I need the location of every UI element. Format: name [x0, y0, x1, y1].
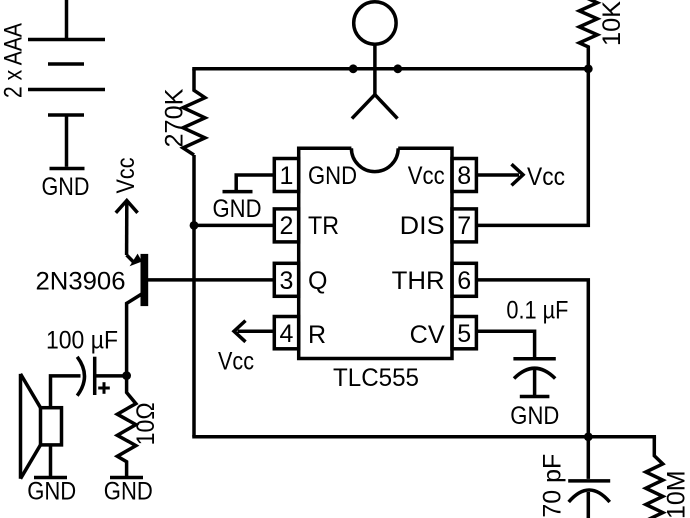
- battery B1 2xAAA: [28, 0, 105, 167]
- svg-text:5: 5: [457, 320, 471, 348]
- resistor R1 270K: [183, 69, 205, 155]
- pin 8 box: [452, 159, 476, 192]
- svg-text:R: R: [308, 321, 326, 349]
- svg-text:Vcc: Vcc: [218, 348, 254, 376]
- svg-text:Vcc: Vcc: [527, 163, 565, 191]
- svg-text:1: 1: [280, 162, 294, 190]
- capacitor C3 670pF: [568, 437, 610, 518]
- svg-text:Q: Q: [308, 267, 327, 295]
- node hand left: [349, 64, 358, 73]
- svg-text:6: 6: [457, 267, 471, 295]
- IC U1 TLC555 body: [299, 148, 452, 358]
- svg-text:GND: GND: [104, 478, 153, 506]
- label plus: [98, 382, 110, 394]
- svg-text:GND: GND: [42, 173, 90, 201]
- svg-text:GND: GND: [308, 162, 357, 190]
- svg-text:GND: GND: [510, 402, 559, 430]
- person touch contact: [352, 2, 398, 119]
- svg-text:2N3906: 2N3906: [36, 268, 126, 296]
- svg-text:10K: 10K: [598, 1, 626, 46]
- arrow Vcc pin4: [234, 321, 274, 342]
- transistor Q1 2N3906: [127, 254, 275, 376]
- svg-text:GND: GND: [27, 478, 76, 506]
- svg-text:2: 2: [280, 212, 294, 240]
- IC notch: [351, 148, 398, 171]
- svg-text:THR: THR: [392, 267, 445, 295]
- resistor R4 10M: [646, 437, 663, 518]
- capacitor C2 0.1uF: [513, 359, 555, 397]
- pin 4 box: [274, 317, 298, 349]
- svg-text:DIS: DIS: [400, 212, 445, 240]
- svg-text:10M: 10M: [663, 470, 690, 518]
- node TR tap: [190, 221, 199, 230]
- svg-text:8: 8: [457, 162, 471, 190]
- ground 10 ohm: [110, 476, 143, 480]
- pin 2 box: [274, 209, 298, 242]
- resistor R3 10 ohm: [117, 376, 136, 476]
- arrow Vcc pin8: [476, 164, 523, 185]
- svg-text:CV: CV: [410, 321, 445, 349]
- node collector junction: [122, 371, 131, 380]
- speaker LS1: [21, 374, 62, 479]
- wire top rail: [192, 67, 588, 71]
- wire pin5 to CV cap: [476, 331, 534, 359]
- svg-text:TR: TR: [308, 212, 339, 240]
- wire 270K to TR tap to bottom rail: [192, 155, 196, 437]
- svg-text:7: 7: [457, 212, 471, 240]
- svg-text:100 µF: 100 µF: [46, 327, 118, 355]
- node 10K junction: [584, 64, 593, 73]
- ground pin1: [223, 190, 253, 194]
- wire pin1 to ground: [236, 175, 274, 190]
- wire pin7 to 10K junction: [476, 69, 588, 226]
- svg-text:0.1 µF: 0.1 µF: [506, 297, 568, 325]
- ground speaker: [34, 476, 67, 480]
- svg-text:GND: GND: [213, 195, 262, 223]
- svg-text:10Ω: 10Ω: [132, 402, 160, 445]
- wire bottom rail: [192, 435, 656, 439]
- pin 6 box: [452, 263, 476, 296]
- svg-text:670 pF: 670 pF: [538, 454, 566, 518]
- resistor R2 10K: [579, 0, 597, 69]
- svg-text:4: 4: [280, 320, 294, 348]
- pin 1 box: [274, 159, 298, 192]
- ground battery: [50, 167, 85, 171]
- svg-text:TLC555: TLC555: [333, 364, 419, 392]
- wire tap to pin2: [194, 224, 274, 228]
- arrow Vcc emitter: [116, 201, 138, 256]
- svg-text:270K: 270K: [161, 88, 189, 147]
- capacitor C1 100uF: [51, 357, 127, 408]
- pin 7 box: [452, 209, 476, 242]
- svg-text:3: 3: [280, 267, 294, 295]
- node hand right: [393, 64, 402, 73]
- node bottom junction: [584, 432, 593, 441]
- svg-text:Vcc: Vcc: [112, 158, 140, 194]
- wire pin6 to bottom junction: [476, 280, 588, 437]
- pin 3 box: [274, 263, 298, 296]
- ground 0.1uF: [520, 395, 550, 399]
- svg-text:2 x AAA: 2 x AAA: [0, 23, 28, 98]
- svg-text:Vcc: Vcc: [408, 162, 445, 190]
- pin 5 box: [452, 317, 476, 349]
